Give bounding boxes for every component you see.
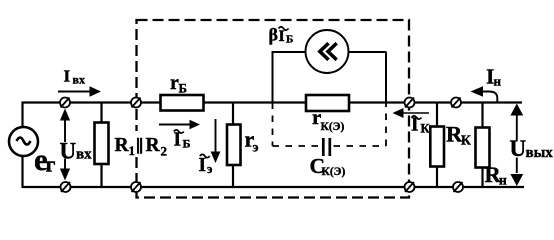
- svg-text:R: R: [146, 135, 161, 156]
- svg-text:I: I: [279, 28, 285, 45]
- label U_вых: [510, 136, 554, 161]
- svg-text:э: э: [253, 141, 259, 156]
- resistor R_К: [430, 127, 444, 167]
- svg-text:вых: вых: [526, 145, 554, 161]
- label R_н: [485, 162, 508, 188]
- svg-text:I: I: [64, 67, 71, 86]
- svg-text:‖: ‖: [136, 134, 143, 159]
- svg-text:I: I: [174, 130, 182, 151]
- label r_Б: [170, 72, 187, 96]
- wire R_н branch top: [481, 103, 483, 129]
- svg-text:I: I: [411, 115, 419, 136]
- label βI~_Б: [269, 25, 294, 46]
- capacitor C_К(Э) plates: [323, 138, 330, 156]
- svg-text:U: U: [60, 139, 77, 164]
- svg-text:Б: Б: [179, 81, 188, 96]
- svg-text:β: β: [269, 25, 278, 45]
- arrow I_вх: [58, 86, 101, 97]
- terminal bottom-left: [61, 182, 71, 192]
- resistor R_н: [476, 128, 490, 168]
- label r_э: [245, 127, 259, 156]
- terminal top on dashed edge left: [131, 98, 141, 108]
- wire generator branch top: [21, 102, 23, 128]
- wire R_н branch bottom: [481, 168, 483, 188]
- wire dependent-source branch right vertical: [385, 52, 387, 103]
- resistor R1||R2: [95, 123, 109, 165]
- svg-text:U: U: [510, 136, 527, 161]
- resistor r_Б: [161, 95, 204, 111]
- svg-text:R: R: [115, 135, 130, 156]
- svg-text:К(Э): К(Э): [321, 121, 345, 133]
- svg-text:вх: вх: [76, 147, 92, 163]
- label I_вх: [64, 67, 85, 87]
- label R1||R2: [112, 131, 168, 159]
- wire R_К branch bottom: [436, 166, 438, 187]
- svg-text:К: К: [461, 133, 471, 148]
- wire capacitor branch dashed left vertical: [272, 103, 274, 147]
- wire dependent-source branch right horizontal: [349, 51, 387, 53]
- arrow U_вых (double headed): [510, 104, 523, 187]
- svg-text:I: I: [199, 155, 207, 176]
- wire bottom rail: [22, 186, 524, 188]
- svg-text:г: г: [46, 152, 56, 177]
- resistor r_К(Э): [306, 95, 349, 111]
- svg-text:2: 2: [161, 144, 168, 159]
- wire dependent-source branch left vertical: [272, 52, 274, 103]
- wire R1R2 branch bottom: [100, 164, 102, 188]
- svg-text:Б: Б: [286, 33, 293, 45]
- svg-text:К(Э): К(Э): [322, 166, 346, 178]
- wire top rail: [22, 101, 522, 103]
- AC source e_g circle: [9, 127, 38, 156]
- wire capacitor branch dashed right vertical: [385, 103, 387, 147]
- svg-text:вх: вх: [73, 73, 85, 87]
- label e_г: [34, 142, 56, 177]
- label I~_э: [199, 154, 213, 176]
- svg-text:э: э: [207, 162, 212, 176]
- wire r_Э branch bottom: [232, 165, 234, 188]
- label C_К(Э): [310, 154, 346, 178]
- wire R1R2 branch top: [100, 103, 102, 123]
- wire r_Э branch top: [232, 103, 234, 126]
- terminal bottom on dashed edge left: [131, 182, 141, 192]
- wire capacitor branch dashed left horizontal: [273, 145, 320, 147]
- wire capacitor branch dashed right horizontal: [334, 145, 387, 147]
- label I~_Б: [174, 130, 191, 151]
- terminal top-left: [60, 98, 70, 108]
- arrow I_н curved: [471, 86, 498, 102]
- terminal bottom on dashed edge right: [405, 182, 415, 192]
- wire dependent-source branch left horizontal: [272, 51, 307, 53]
- terminal bottom between R_К and R_н: [453, 182, 463, 192]
- label R_К: [446, 122, 471, 148]
- terminal top on dashed edge right: [405, 98, 415, 108]
- svg-text:н: н: [494, 74, 502, 89]
- svg-text:н: н: [499, 173, 507, 188]
- arrow I~_К (points left): [393, 108, 430, 118]
- wire R_К branch top: [436, 103, 438, 128]
- terminal top between R_К and R_н: [451, 98, 461, 108]
- dashed transistor-model box: [137, 20, 410, 198]
- label I_н: [486, 65, 502, 89]
- arrow I~_Б: [159, 120, 200, 130]
- resistor r_Э: [227, 125, 241, 166]
- svg-text:1: 1: [129, 143, 136, 158]
- svg-text:К: К: [421, 122, 430, 136]
- label U_вх: [60, 139, 93, 164]
- svg-text:Б: Б: [183, 137, 191, 151]
- wire generator branch bottom: [21, 156, 23, 188]
- label I~_К: [411, 115, 430, 136]
- arrow U_вх (double headed): [60, 109, 70, 181]
- arrow I~_э downward: [211, 119, 221, 163]
- label r_К(Э): [312, 105, 344, 133]
- dependent current source βI~_Б circle: [306, 30, 349, 73]
